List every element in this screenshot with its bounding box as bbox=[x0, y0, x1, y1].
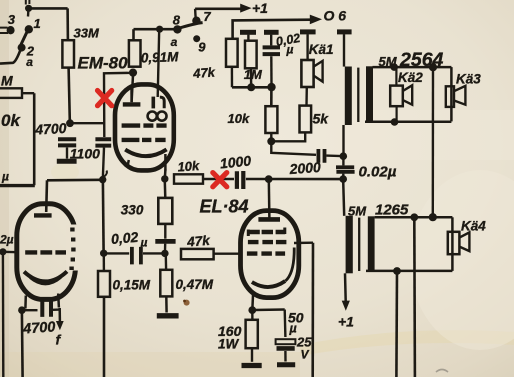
transformer T2 secondary bbox=[368, 216, 375, 272]
node bbox=[340, 152, 348, 160]
capacitor 1000 bbox=[237, 171, 243, 189]
V1 grid dashes bbox=[25, 250, 66, 254]
V1 heater bbox=[30, 277, 61, 284]
svg-text:0,02: 0,02 bbox=[110, 229, 139, 247]
wire screen drop bbox=[311, 243, 314, 377]
node bbox=[339, 175, 347, 183]
node bbox=[156, 26, 163, 33]
wire bbox=[270, 87, 273, 106]
svg-text:0,47M: 0,47M bbox=[176, 277, 214, 292]
node EL84 anode bbox=[265, 175, 273, 183]
wire box top bbox=[375, 216, 453, 219]
wire bbox=[165, 255, 168, 270]
EL-84 cathode lead bbox=[251, 295, 254, 309]
EM-80 electrode lead bbox=[130, 86, 133, 102]
wire to triode plate bbox=[45, 180, 48, 212]
svg-text:Kä4: Kä4 bbox=[461, 219, 486, 234]
svg-text:330: 330 bbox=[121, 203, 144, 218]
V1 cathode bbox=[24, 271, 67, 281]
node bbox=[429, 63, 437, 71]
rail tap 3 bbox=[300, 29, 316, 34]
node bbox=[267, 137, 275, 145]
svg-text:EL·84: EL·84 bbox=[200, 197, 249, 217]
wire bbox=[271, 132, 305, 141]
svg-text:10k: 10k bbox=[228, 111, 250, 126]
wire drop bbox=[103, 297, 106, 377]
wire bbox=[22, 92, 34, 94]
EM-80 eye indicator bbox=[148, 112, 157, 121]
speaker Ka1 bbox=[301, 60, 313, 87]
wire bbox=[164, 224, 166, 239]
switch contact 2 bbox=[18, 44, 26, 52]
capacitor 0.02u bbox=[336, 167, 355, 172]
svg-text:Kä3: Kä3 bbox=[456, 72, 481, 87]
svg-text:µ: µ bbox=[289, 322, 297, 336]
switch contact 1 bbox=[25, 25, 33, 33]
svg-text:M: M bbox=[1, 73, 13, 89]
capacitor 4700 bbox=[58, 139, 76, 145]
resistor 47k bbox=[181, 249, 214, 259]
wire bbox=[0, 51, 20, 64]
resistor 47k bbox=[226, 39, 238, 67]
svg-text:a: a bbox=[171, 35, 178, 49]
wire bbox=[305, 87, 308, 106]
EL-84 cathode bbox=[252, 281, 285, 287]
EM-80 cathode stub bbox=[128, 160, 129, 166]
svg-text:1000: 1000 bbox=[219, 152, 252, 171]
svg-text:a: a bbox=[26, 55, 33, 69]
V1 lead bbox=[57, 294, 60, 308]
wire bbox=[69, 68, 70, 121]
net +1 arrow bbox=[195, 8, 241, 11]
V1 lead bbox=[24, 296, 27, 309]
svg-text:1W: 1W bbox=[218, 337, 240, 352]
wire drop bbox=[413, 217, 416, 377]
wire bbox=[214, 252, 241, 254]
resistor 5k bbox=[300, 106, 312, 133]
wire drop bbox=[395, 271, 398, 377]
wire bbox=[250, 69, 253, 88]
wire bbox=[251, 348, 253, 362]
svg-text:7: 7 bbox=[203, 9, 211, 24]
svg-text:10k: 10k bbox=[177, 158, 200, 175]
svg-text:0,15M: 0,15M bbox=[113, 278, 151, 293]
wire bbox=[165, 296, 168, 312]
wire bbox=[284, 351, 287, 362]
rail tap 1 bbox=[240, 30, 256, 35]
EM-80 cathode bbox=[125, 149, 166, 156]
repair mark X2 bbox=[213, 173, 227, 187]
svg-text:+1: +1 bbox=[338, 314, 354, 330]
svg-text:Kä1: Kä1 bbox=[309, 42, 334, 57]
svg-text:5k: 5k bbox=[313, 111, 330, 127]
svg-text:µ: µ bbox=[1, 170, 9, 184]
resistor 0.91M bbox=[129, 40, 141, 66]
EL-84 grid 3 bbox=[248, 230, 285, 234]
node 0.91M bottom bbox=[129, 69, 137, 77]
svg-text:1M: 1M bbox=[244, 67, 263, 82]
wire bbox=[343, 181, 344, 216]
svg-text:0.02µ: 0.02µ bbox=[359, 164, 397, 181]
wire grid drop bbox=[2, 252, 5, 377]
capacitor 2000 bbox=[318, 149, 324, 163]
wire into EM-80 plate bbox=[132, 75, 133, 102]
node bbox=[267, 83, 275, 91]
hook mark bbox=[104, 171, 107, 177]
wire box right bbox=[451, 217, 454, 271]
wire bbox=[231, 67, 234, 88]
wire bbox=[53, 308, 60, 311]
svg-text:1: 1 bbox=[34, 16, 41, 31]
switch contact 8 bbox=[173, 25, 181, 33]
wire bbox=[66, 148, 68, 159]
wire box right bbox=[450, 67, 453, 121]
wire drop bbox=[21, 312, 24, 377]
V1 grid wire bbox=[3, 251, 18, 254]
wire bbox=[252, 308, 284, 311]
node bbox=[391, 118, 399, 126]
node 4700 junction bbox=[66, 119, 74, 127]
speaker Ka2 bbox=[395, 67, 397, 86]
resistor 160 1W bbox=[246, 320, 258, 348]
node bbox=[393, 267, 401, 275]
wire long drop bbox=[432, 69, 435, 216]
EM-80 grid row 2 bbox=[122, 138, 166, 142]
terminal ticks top bbox=[26, 0, 30, 5]
wire bbox=[102, 182, 105, 252]
svg-text:4700: 4700 bbox=[34, 120, 67, 138]
svg-text:4700: 4700 bbox=[22, 319, 56, 337]
wire bbox=[134, 28, 177, 31]
EM-80 grid row bbox=[122, 123, 167, 127]
node grid bbox=[0, 248, 7, 255]
tube EL-84 envelope bbox=[241, 211, 299, 298]
wire to EM-80 electrode bbox=[158, 29, 160, 97]
EL-84 grid 1 bbox=[247, 251, 285, 255]
switch contact 9 bbox=[193, 35, 200, 42]
wire bbox=[342, 174, 344, 178]
svg-text:EM-80: EM-80 bbox=[78, 54, 129, 73]
svg-text:8: 8 bbox=[173, 13, 181, 28]
tube EM-80 envelope bbox=[115, 84, 174, 170]
wire bbox=[326, 154, 341, 157]
svg-text:V: V bbox=[301, 348, 310, 362]
resistor 10k bbox=[265, 106, 277, 133]
ground bbox=[242, 363, 262, 368]
wire bbox=[143, 252, 165, 254]
ground bbox=[157, 313, 179, 318]
resistor 10k horizontal bbox=[174, 174, 203, 183]
EL-84 anode bbox=[258, 217, 280, 222]
block bottom bbox=[0, 184, 35, 187]
EM-80 cathode lead bbox=[164, 154, 167, 171]
wire bbox=[344, 273, 347, 301]
svg-text:µ: µ bbox=[140, 236, 148, 250]
repair mark X1 bbox=[98, 91, 112, 106]
node bbox=[18, 306, 26, 314]
node grid-line junction bbox=[100, 250, 107, 257]
transformer T1 secondary bbox=[366, 66, 373, 122]
node bbox=[429, 213, 437, 221]
wire bbox=[271, 141, 316, 155]
svg-text:O 6: O 6 bbox=[324, 8, 347, 24]
capacitor 1100 plate bbox=[57, 159, 77, 164]
EL-84 cathode riser bbox=[285, 248, 294, 282]
transformer T2 core bbox=[358, 218, 360, 271]
svg-text:µ: µ bbox=[286, 43, 294, 57]
resistor 33M bbox=[62, 40, 74, 67]
wire bbox=[268, 179, 271, 219]
plug terminal 3 bbox=[0, 28, 8, 33]
tube V1 envelope dots bbox=[72, 228, 74, 271]
wire bbox=[164, 170, 167, 179]
svg-text:1100: 1100 bbox=[70, 146, 100, 162]
svg-text:47k: 47k bbox=[186, 233, 212, 250]
wire box bottom bbox=[365, 120, 451, 123]
paper stain bbox=[184, 300, 190, 306]
svg-text:9: 9 bbox=[198, 40, 206, 55]
EM-80 right electrode bbox=[152, 97, 156, 109]
rail tap 2 bbox=[264, 30, 279, 35]
wire bbox=[66, 8, 69, 40]
capacitor (grid) bbox=[95, 139, 111, 145]
wire bbox=[104, 252, 130, 254]
wire bbox=[342, 125, 344, 154]
speaker Ka4 bbox=[448, 232, 460, 254]
wire box top bbox=[373, 66, 452, 69]
net O6 wire bbox=[233, 20, 311, 39]
node EM-80 cathode bbox=[161, 175, 168, 182]
switch arm S1 bbox=[21, 32, 27, 45]
svg-text:2µ: 2µ bbox=[0, 233, 14, 247]
wire box bottom bbox=[366, 270, 452, 273]
switch contact 7 bbox=[192, 17, 200, 25]
wire bbox=[132, 29, 135, 40]
capacitor plate bbox=[155, 239, 175, 244]
node top-left bbox=[25, 5, 32, 12]
ground bbox=[277, 362, 295, 367]
resistor 330 bbox=[158, 198, 172, 224]
svg-text:+1: +1 bbox=[252, 0, 268, 16]
wire bbox=[70, 122, 104, 124]
net +1 arrow down bbox=[342, 301, 350, 311]
svg-text:33M: 33M bbox=[74, 26, 100, 41]
node bbox=[410, 213, 418, 221]
node bbox=[247, 83, 255, 91]
switch arm S2 bbox=[179, 23, 203, 29]
wire bus bbox=[232, 86, 272, 89]
svg-text:0k: 0k bbox=[1, 111, 21, 130]
tube V1 envelope bbox=[17, 204, 76, 300]
wire bbox=[203, 178, 234, 180]
transformer T1 core bbox=[357, 68, 359, 122]
node bbox=[390, 63, 398, 71]
capacitor 50u electrolytic bbox=[276, 339, 296, 344]
speaker Ka3 bbox=[446, 86, 454, 107]
EL-84 grid 2 bbox=[248, 240, 287, 244]
EM-80 target electrode bbox=[123, 102, 141, 106]
V1 plate bbox=[34, 213, 52, 217]
wire bbox=[47, 179, 103, 182]
wire bbox=[22, 309, 38, 311]
svg-text:2000: 2000 bbox=[288, 159, 321, 177]
transformer T1 primary bbox=[345, 67, 352, 126]
transformer T2 primary bbox=[346, 216, 353, 273]
wire stub switch bbox=[27, 10, 30, 17]
wire bbox=[164, 181, 167, 198]
svg-text:47k: 47k bbox=[192, 64, 216, 81]
capacitor 0.02u bbox=[263, 47, 280, 54]
wire bbox=[270, 133, 272, 141]
wire anode bus bbox=[246, 178, 341, 181]
svg-text:Kä2: Kä2 bbox=[398, 70, 423, 85]
wire bbox=[29, 7, 68, 10]
block right edge bbox=[33, 93, 36, 185]
wire bbox=[103, 148, 104, 177]
wire bbox=[194, 9, 197, 18]
arrow f bbox=[58, 308, 61, 322]
resistor (left edge) bbox=[0, 88, 22, 98]
wire bbox=[270, 56, 273, 85]
node cathode bbox=[248, 306, 256, 314]
svg-text:0,91M: 0,91M bbox=[141, 49, 180, 65]
wire bbox=[342, 158, 344, 166]
wire bbox=[104, 73, 133, 137]
capacitor 4700 bbox=[42, 300, 51, 317]
node grid EL84 bbox=[161, 250, 168, 257]
rail tap 4 bbox=[337, 29, 352, 34]
svg-text:1265: 1265 bbox=[375, 202, 409, 219]
resistor 1M bbox=[245, 41, 257, 69]
wire screen out bbox=[294, 241, 313, 244]
resistor 0.47M bbox=[160, 270, 172, 297]
resistor 0.15M bbox=[103, 255, 105, 271]
svg-text:5M: 5M bbox=[348, 204, 367, 219]
wire bbox=[284, 310, 287, 338]
wire bbox=[164, 244, 167, 251]
svg-text:3: 3 bbox=[8, 12, 16, 27]
capacitor 0.02u bbox=[132, 247, 141, 265]
wire bbox=[251, 312, 253, 320]
node anode junction bbox=[99, 176, 106, 183]
